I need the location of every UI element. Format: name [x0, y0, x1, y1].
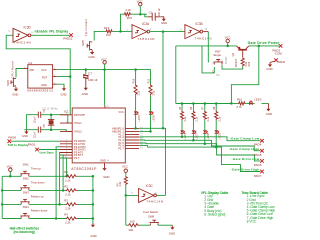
svg-text:GND: GND [266, 112, 272, 116]
ground below SW6 [14, 87, 18, 91]
svg-text:Tip Contact: Tip Contact [84, 19, 88, 36]
svg-text:PAD2: PAD2 [278, 60, 286, 64]
wire U1 GND down [53, 83, 57, 85]
resistor R7 2.2k [204, 104, 206, 111]
op-amp IC3D 74HC14N [13, 28, 31, 42]
IC U1 MAX6805 [28, 65, 53, 88]
resistor R8 2.2k [215, 104, 217, 111]
power VCC (MCU) [103, 61, 106, 64]
svg-text:R12: R12 [147, 78, 150, 83]
svg-text:R11: R11 [129, 228, 134, 232]
svg-text:AT89C2051P: AT89C2051P [71, 167, 97, 171]
svg-text:2.2k: 2.2k [119, 181, 122, 186]
switch SW7 [213, 60, 223, 65]
resistor R11 100 [126, 224, 128, 226]
svg-text:100: 100 [130, 220, 135, 224]
svg-text:BC327: BC327 [234, 58, 238, 67]
svg-text:R15: R15 [127, 16, 133, 20]
svg-text:CPU Reset: CPU Reset [10, 60, 14, 78]
svg-text:VCC: VCC [118, 110, 124, 114]
wire row2 [2, 189, 93, 191]
svg-text:R3: R3 [64, 198, 68, 202]
svg-text:GND: GND [88, 55, 94, 59]
ground C1 [162, 17, 166, 21]
svg-text:MR: MR [30, 68, 34, 72]
svg-text:LED5: LED5 [138, 115, 141, 122]
wire resistor common to gnd [92, 176, 94, 223]
svg-text:100 nF: 100 nF [88, 78, 98, 82]
wire column top bus [176, 103, 232, 105]
svg-text:nEnable VFL Display: nEnable VFL Display [35, 29, 69, 33]
svg-text:PAD7: PAD7 [254, 174, 262, 178]
svg-text:GND: GND [161, 21, 167, 25]
svg-text:R14: R14 [132, 78, 135, 83]
wire row1 [2, 175, 93, 177]
wire R13 to IC3A input [113, 30, 132, 32]
wire IC3A out to IC3B in [150, 31, 185, 33]
svg-text:U1: U1 [28, 61, 32, 65]
op-amp IC3C 74HC14N [139, 188, 157, 202]
wire row4 [2, 218, 93, 220]
svg-text:2.2k: 2.2k [184, 116, 187, 121]
svg-text:VCC: VCC [7, 164, 13, 168]
svg-text:8 VCC: 8 VCC [247, 219, 257, 223]
svg-text:-Line Sync: -Line Sync [39, 150, 55, 154]
svg-text:GND: GND [22, 134, 28, 138]
svg-text:VCC: VCC [122, 165, 128, 169]
svg-text:PAD8: PAD8 [8, 135, 16, 139]
switch SW4 pattern down [20, 214, 29, 219]
svg-text:2.2k: 2.2k [65, 193, 71, 197]
wire switch row bus left [1, 176, 3, 218]
svg-text:LED4: LED4 [184, 133, 187, 140]
LED LED5 [135, 95, 137, 111]
svg-text:R1: R1 [64, 170, 68, 174]
wire P1.0 to gate net [139, 127, 163, 129]
LED LED6 [150, 95, 152, 111]
wire IC3C out up to gate net [157, 194, 166, 196]
power VCC (IC3A) [139, 2, 142, 5]
capacitor C6 22pF [38, 127, 40, 133]
svg-text:GND: GND [41, 83, 47, 87]
wire P1.6 bus to PAD7 [139, 146, 260, 172]
power VCC (gate drive) [226, 39, 229, 42]
MCU left pin stubs [60, 115, 72, 158]
wire foot switch to gnd [158, 224, 172, 226]
svg-text:-Gate Drive High: -Gate Drive High [230, 168, 259, 172]
svg-text:TxD to Display: TxD to Display [8, 143, 29, 147]
switch SW1 time up [20, 171, 29, 176]
wire Q2 output feed [231, 46, 258, 104]
wire P1.4 bus to PAD5 [139, 140, 260, 151]
svg-text:UP: UP [212, 63, 216, 65]
svg-text:PAD1: PAD1 [28, 143, 36, 147]
svg-text:COM: COM [275, 52, 283, 56]
wire XTAL1 net [41, 115, 72, 123]
ground below SW5 [90, 50, 94, 54]
svg-text:SW6: SW6 [6, 79, 10, 86]
svg-text:2.2k: 2.2k [65, 178, 71, 182]
svg-text:2.2k: 2.2k [218, 116, 221, 121]
svg-text:XTAL2: XTAL2 [74, 129, 82, 133]
svg-text:2.2k: 2.2k [65, 207, 71, 211]
crystal Q1 [50, 115, 52, 130]
svg-text:SW8: SW8 [148, 215, 155, 219]
op-amp IC3B 74HC14N [185, 25, 203, 39]
svg-text:2.2k: 2.2k [153, 90, 156, 95]
svg-text:P3.7: P3.7 [74, 156, 80, 160]
svg-text:R4: R4 [64, 212, 68, 216]
svg-text:IC3D: IC3D [24, 25, 32, 29]
wire U1 RST to MCU [53, 76, 57, 78]
switch SW2 time down [20, 185, 29, 190]
svg-text:Gate Drive Power: Gate Drive Power [248, 41, 281, 45]
svg-text:-Gate Clamp High: -Gate Clamp High [229, 147, 260, 151]
svg-text:C: C [212, 71, 214, 74]
svg-text:100: 100 [106, 33, 111, 37]
ground crystal caps [24, 130, 28, 134]
svg-text:GND: GND [12, 93, 18, 97]
svg-text:VCC: VCC [137, 0, 143, 3]
svg-text:-Gate Drive Low: -Gate Drive Low [231, 157, 259, 161]
ground C7 [84, 86, 88, 90]
wire tip contact to R13 [94, 31, 105, 40]
switch SW5 tip contact [87, 41, 92, 50]
svg-text:GND: GND [100, 159, 106, 163]
svg-text:NO: NO [216, 74, 220, 77]
op-amp IC3A 74HC14N [132, 25, 150, 39]
svg-text:Pattern up: Pattern up [31, 195, 44, 199]
pad PAD2 grounded [274, 58, 278, 62]
svg-text:MAX6805XR29 D1: MAX6805XR29 D1 [27, 89, 53, 93]
svg-text:GND: GND [169, 232, 175, 236]
switch SW3 pattern up [20, 199, 29, 204]
svg-text:Foot Switch: Foot Switch [143, 210, 158, 214]
wire IC3B out down to SW7 [203, 31, 208, 33]
svg-text:RST/VPP: RST/VPP [74, 113, 85, 117]
svg-text:22 pF: 22 pF [33, 131, 36, 138]
svg-text:74HC14N: 74HC14N [146, 200, 163, 204]
svg-text:(no bouncing): (no bouncing) [14, 230, 35, 234]
LED LED7 column2 [192, 120, 194, 130]
svg-text:SW4: SW4 [23, 205, 30, 209]
resistor R15 2.2k pullup [121, 14, 124, 31]
svg-text:74HC14N: 74HC14N [138, 37, 155, 41]
wire P1.3 bus to PAD4 [139, 137, 260, 141]
svg-text:LED7: LED7 [196, 133, 199, 140]
svg-text:GND: GND [82, 92, 88, 96]
resistor R14 2.2k [135, 70, 137, 84]
svg-text:LED9: LED9 [218, 133, 221, 140]
svg-text:SW3: SW3 [23, 191, 30, 195]
svg-text:Q2: Q2 [231, 52, 235, 56]
svg-text:74HC14N: 74HC14N [195, 37, 212, 41]
resistor R6 2.2k [192, 104, 194, 111]
wire R16 bottom to SW7 [222, 65, 243, 69]
wire nEnable VFL Display [31, 34, 69, 36]
svg-text:2.2k: 2.2k [207, 116, 210, 121]
pad PAD8 [8, 139, 12, 143]
svg-text:2.2k: 2.2k [65, 221, 71, 225]
wire TxD to display [11, 140, 60, 142]
svg-text:RST: RST [42, 76, 48, 80]
wire gate net vertical (IC3B in / IC3C out / P1.0) [163, 32, 166, 196]
wire P1.1 [139, 130, 150, 132]
pad PAD11 [69, 33, 73, 37]
LED LED4 column1 [181, 120, 183, 130]
svg-text:VCC: VCC [225, 36, 231, 40]
ground U1 [62, 87, 66, 91]
wire U1 VCC net [53, 69, 57, 71]
svg-text:IC3A: IC3A [142, 22, 150, 26]
svg-text:SW2: SW2 [23, 177, 30, 181]
svg-text:Time up: Time up [31, 166, 41, 170]
wire IC3D input net [6, 35, 70, 115]
wire R15 to VCC node [131, 13, 147, 15]
svg-text:74HC14N: 74HC14N [14, 41, 31, 45]
svg-text:Time down: Time down [31, 181, 45, 185]
wire LED3 row [231, 102, 268, 104]
transistor Q2 [237, 46, 249, 49]
wire R11 to foot switch [139, 224, 150, 226]
power VCC (foot switch pullup) [124, 169, 127, 172]
wire line sync [39, 149, 60, 151]
svg-text:2.2k: 2.2k [126, 8, 132, 12]
svg-text:GND: GND [90, 234, 96, 238]
wire U1 MR to reset switch [23, 68, 28, 70]
MCU pin numbers [65, 106, 144, 162]
resistor R16 2.2k [241, 57, 244, 66]
svg-text:DOWN: DOWN [226, 56, 228, 64]
switch SW8 foot switch [150, 220, 159, 225]
svg-text:6 -Select (gnd): 6 -Select (gnd) [204, 212, 225, 216]
pad PAD3 COM [279, 44, 283, 48]
pad PAD1 [35, 148, 39, 152]
svg-text:-Gate Clamp Low: -Gate Clamp Low [230, 137, 260, 141]
svg-text:VCC: VCC [101, 58, 107, 62]
resistor R5 2.2k [181, 104, 183, 111]
switch SW6 CPU reset [11, 78, 16, 87]
power VCC (switches) [9, 168, 12, 171]
ground R1-R4 [91, 223, 95, 227]
svg-text:GND: GND [103, 175, 109, 179]
wire P1.5 bus to PAD6 [139, 143, 260, 161]
wire caps common to gnd [24, 115, 38, 130]
svg-text:4.7k: 4.7k [236, 105, 242, 109]
svg-text:100 nF: 100 nF [157, 8, 161, 16]
svg-text:P1.7: P1.7 [118, 147, 124, 151]
wire P3.7 to row1 [60, 158, 67, 176]
svg-text:XTAL1: XTAL1 [74, 121, 82, 125]
LED LED8 column3 [204, 120, 206, 130]
svg-text:Pattern down: Pattern down [31, 209, 48, 213]
wire row3 [2, 203, 93, 205]
wire P3.5 to row2 [60, 155, 63, 190]
svg-text:IC3B: IC3B [196, 22, 203, 26]
wire pullup to IC3C input and foot switch [126, 185, 139, 225]
MCU bottom GND pin [104, 163, 106, 166]
svg-text:22 pF: 22 pF [33, 116, 36, 123]
svg-text:GND: GND [266, 67, 272, 71]
ground LED3 [267, 103, 269, 107]
svg-text:GND: GND [60, 92, 66, 96]
svg-text:PAD6: PAD6 [254, 163, 262, 167]
LED LED9 column4 [215, 120, 217, 130]
svg-text:SW5: SW5 [81, 39, 85, 46]
svg-text:Single: Single [213, 53, 221, 57]
capacitor C5 22pF [38, 112, 40, 118]
MCU right pin stubs [125, 128, 139, 148]
ground foot switch [170, 225, 174, 229]
MCU internal labels [74, 110, 124, 163]
svg-text:LED3: LED3 [254, 98, 261, 102]
svg-text:VCC: VCC [41, 68, 47, 72]
svg-text:R2: R2 [64, 184, 68, 188]
wire P3.2 to row4 [56, 147, 60, 219]
wire SW7 frame [202, 46, 214, 73]
svg-text:SW1: SW1 [23, 163, 30, 167]
wire P3.4 to row3 [59, 153, 61, 205]
wire XTAL2 net [41, 130, 72, 132]
svg-text:R16: R16 [248, 61, 251, 66]
svg-text:PAD11: PAD11 [63, 37, 72, 41]
capacitor C7 100nF [85, 70, 87, 75]
svg-text:IC3C: IC3C [146, 184, 154, 188]
svg-text:2.2k: 2.2k [138, 90, 141, 95]
wire gate drive power rail [176, 45, 279, 47]
svg-text:LED8: LED8 [207, 133, 210, 140]
svg-text:2.2k: 2.2k [196, 116, 199, 121]
svg-text:C7: C7 [88, 72, 92, 76]
svg-text:LED6: LED6 [153, 115, 156, 122]
